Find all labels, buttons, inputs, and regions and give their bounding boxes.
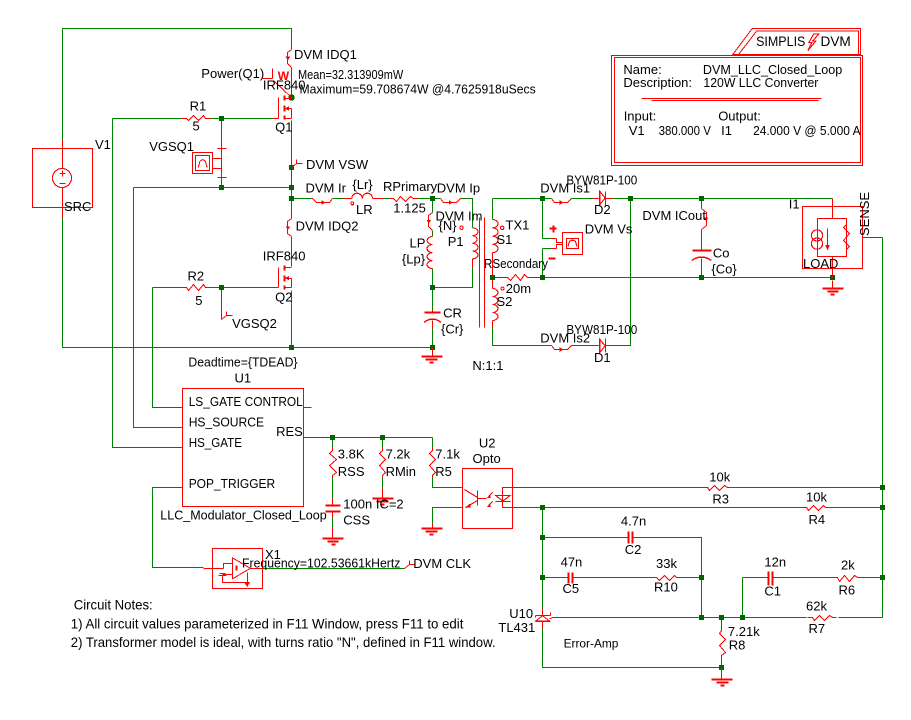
- svg-text:DVM Ir: DVM Ir: [306, 181, 347, 196]
- svg-text:Input:: Input:: [624, 109, 657, 124]
- svg-text:U2: U2: [479, 436, 496, 451]
- svg-text:Q1: Q1: [275, 120, 292, 135]
- svg-text:DVM CLK: DVM CLK: [413, 556, 471, 571]
- svg-text:RPrimary: RPrimary: [383, 179, 438, 194]
- svg-text:LP: LP: [410, 236, 426, 251]
- svg-text:10k: 10k: [806, 490, 827, 505]
- svg-text:7.2k: 7.2k: [386, 447, 411, 462]
- svg-text:{N}: {N}: [439, 218, 458, 233]
- svg-text:47n: 47n: [561, 555, 583, 570]
- svg-text:R6: R6: [839, 583, 856, 598]
- svg-text:Co: Co: [713, 246, 730, 261]
- svg-text:5: 5: [193, 119, 200, 134]
- svg-text:R8: R8: [729, 638, 746, 653]
- svg-text:IRF840: IRF840: [263, 249, 306, 264]
- svg-text:Mean=32.313909mW: Mean=32.313909mW: [298, 67, 404, 82]
- svg-text:C1: C1: [764, 584, 781, 599]
- svg-text:U10: U10: [509, 606, 533, 621]
- svg-text:DVM IDQ2: DVM IDQ2: [296, 219, 359, 234]
- svg-text:Description:: Description:: [623, 75, 692, 90]
- svg-text:V1: V1: [95, 137, 111, 152]
- svg-text:N:1:1: N:1:1: [472, 358, 503, 373]
- svg-text:DVM VSW: DVM VSW: [306, 157, 369, 172]
- svg-text:R5: R5: [435, 464, 452, 479]
- svg-text:SRC: SRC: [64, 199, 91, 214]
- svg-text:CR: CR: [443, 306, 462, 321]
- svg-text:4.7n: 4.7n: [621, 514, 646, 529]
- svg-text:DVM Is1: DVM Is1: [540, 181, 590, 196]
- svg-text:Frequency=102.53661kHertz: Frequency=102.53661kHertz: [242, 556, 400, 571]
- svg-text:VGSQ2: VGSQ2: [232, 316, 277, 331]
- svg-text:TX1: TX1: [506, 218, 530, 233]
- svg-text:U1: U1: [235, 371, 252, 386]
- svg-text:R2: R2: [188, 269, 205, 284]
- svg-text:33k: 33k: [656, 556, 677, 571]
- svg-text:24.000 V @ 5.000 A: 24.000 V @ 5.000 A: [753, 123, 861, 138]
- svg-text:I1: I1: [789, 197, 800, 212]
- svg-text:Opto: Opto: [473, 451, 501, 466]
- svg-text:DVM ICout: DVM ICout: [642, 208, 706, 223]
- svg-text:D1: D1: [594, 350, 611, 365]
- svg-text:DVM: DVM: [821, 33, 851, 49]
- svg-text:DVM Is2: DVM Is2: [540, 331, 590, 346]
- svg-text:D2: D2: [594, 202, 611, 217]
- svg-text:RSS: RSS: [338, 464, 365, 479]
- svg-text:{Lr}: {Lr}: [352, 177, 373, 192]
- svg-text:TL431: TL431: [498, 620, 535, 635]
- svg-text:DVM Ip: DVM Ip: [437, 181, 480, 196]
- svg-text:Q2: Q2: [275, 290, 292, 305]
- svg-text:SENSE: SENSE: [857, 192, 872, 236]
- svg-text:R10: R10: [654, 580, 678, 595]
- svg-text:R7: R7: [809, 621, 826, 636]
- svg-text:RMin: RMin: [386, 464, 416, 479]
- svg-text:Error-Amp: Error-Amp: [564, 639, 619, 651]
- svg-text:P1: P1: [448, 234, 464, 249]
- svg-text:V1: V1: [629, 123, 645, 138]
- svg-text:R3: R3: [712, 492, 729, 507]
- svg-text:VGSQ1: VGSQ1: [149, 139, 194, 154]
- svg-text:R4: R4: [809, 512, 826, 527]
- svg-text:{Lp}: {Lp}: [402, 252, 426, 267]
- svg-text:Maximum=59.708674W @4.7625918u: Maximum=59.708674W @4.7625918uSecs: [300, 82, 537, 97]
- svg-text:C5: C5: [563, 581, 580, 596]
- svg-text:C2: C2: [625, 542, 642, 557]
- svg-text:Output:: Output:: [718, 109, 761, 124]
- svg-text:LS_GATE CONTROL: LS_GATE CONTROL: [189, 394, 303, 409]
- svg-text:I1: I1: [721, 123, 732, 138]
- svg-text:2) Transformer model is ideal,: 2) Transformer model is ideal, with turn…: [71, 634, 496, 650]
- svg-text:DVM IDQ1: DVM IDQ1: [294, 47, 357, 62]
- svg-text:SIMPLIS: SIMPLIS: [756, 33, 805, 49]
- svg-text:R1: R1: [190, 99, 207, 114]
- svg-text:1.125: 1.125: [393, 201, 426, 216]
- svg-text:10k: 10k: [709, 470, 730, 485]
- svg-text:RES: RES: [276, 424, 303, 439]
- svg-text:3.8K: 3.8K: [338, 447, 365, 462]
- svg-text:62k: 62k: [806, 599, 827, 614]
- svg-text:{Cr}: {Cr}: [441, 322, 464, 337]
- svg-text:120W LLC Converter: 120W LLC Converter: [703, 75, 819, 90]
- svg-text:12n: 12n: [764, 555, 786, 570]
- svg-text:Circuit Notes:: Circuit Notes:: [74, 596, 153, 612]
- svg-text:Power(Q1): Power(Q1): [201, 66, 264, 81]
- svg-text:{Co}: {Co}: [711, 262, 737, 277]
- svg-text:1) All circuit values paramete: 1) All circuit values parameterized in F…: [71, 616, 464, 632]
- svg-text:HS_GATE: HS_GATE: [189, 435, 243, 450]
- svg-text:LLC_Modulator_Closed_Loop: LLC_Modulator_Closed_Loop: [160, 508, 326, 523]
- svg-text:DVM Vs: DVM Vs: [585, 222, 633, 237]
- svg-text:S1: S1: [497, 232, 513, 247]
- svg-text:CSS: CSS: [343, 513, 370, 528]
- svg-text:S2: S2: [497, 294, 513, 309]
- svg-text:POP_TRIGGER: POP_TRIGGER: [189, 476, 276, 491]
- svg-text:380.000 V: 380.000 V: [659, 123, 712, 138]
- svg-text:LOAD: LOAD: [803, 256, 838, 271]
- svg-text:HS_SOURCE: HS_SOURCE: [189, 415, 265, 430]
- svg-text:7.1k: 7.1k: [435, 447, 460, 462]
- svg-text:100n IC=2: 100n IC=2: [343, 497, 403, 512]
- svg-text:2k: 2k: [841, 558, 855, 573]
- svg-text:Deadtime={TDEAD}: Deadtime={TDEAD}: [188, 355, 298, 370]
- svg-text:5: 5: [195, 293, 202, 308]
- svg-text:RSecondary: RSecondary: [484, 256, 548, 271]
- svg-text:LR: LR: [356, 202, 373, 217]
